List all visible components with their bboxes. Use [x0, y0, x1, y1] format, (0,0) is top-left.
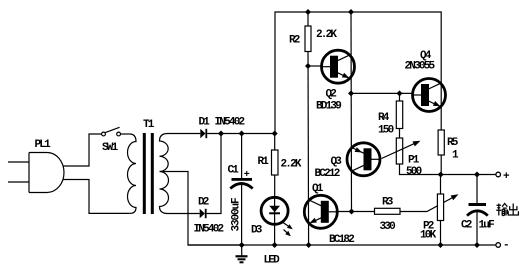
label 输出 (output) [496, 204, 518, 216]
svg-text:BD139: BD139 [316, 100, 341, 112]
svg-text:-: - [503, 240, 510, 252]
svg-text:3300uF: 3300uF [231, 198, 243, 232]
wire secondary top to D1 [168, 133, 201, 135]
transistor Q2 [316, 50, 355, 112]
wire plug to switch [63, 134, 102, 166]
wire center tap down to bottom rail [161, 172, 242, 246]
transistor Q1 [304, 183, 354, 246]
svg-text:BC182: BC182 [329, 234, 354, 246]
resistor R1 [258, 134, 302, 198]
svg-text:PL1: PL1 [35, 139, 52, 151]
capacitor C1 [228, 134, 253, 246]
wire emitter junction to Q4 base [351, 90, 412, 96]
resistor R4 [378, 93, 403, 136]
wire Q2 collector-emitter vertical down through Q3 [348, 12, 354, 212]
wire Q4 collector-emitter vertical to R5 [440, 83, 442, 130]
terminal minus [496, 240, 510, 252]
svg-text:1uF: 1uF [479, 219, 495, 231]
transformer T1 secondary winding [160, 134, 169, 214]
capacitor C2 [461, 175, 494, 246]
wire plug to transformer bottom [63, 180, 130, 214]
top rail [275, 9, 441, 134]
svg-text:500: 500 [406, 166, 422, 178]
resistor R2 [289, 12, 337, 52]
P2 wiper arrowhead [451, 194, 459, 200]
LED D3 [251, 197, 293, 266]
wire Q1 base to R3 [337, 211, 374, 213]
svg-text:+: + [503, 171, 510, 183]
potentiometer P2 [420, 175, 444, 246]
wire R2 bottom / Q2 base / Q1 collector-emitter line [305, 52, 322, 246]
svg-text:IN5402: IN5402 [194, 223, 224, 235]
transformer T1 core [143, 119, 155, 214]
node Q3 collector junction [349, 209, 355, 215]
diode D1 [199, 116, 245, 138]
wire secondary bottom to D2 [168, 213, 200, 215]
svg-text:IN5402: IN5402 [215, 116, 245, 128]
svg-text:2.2K: 2.2K [281, 158, 302, 170]
svg-text:C2: C2 [461, 220, 472, 232]
wire R3 to P2 wiper [400, 197, 455, 212]
svg-text:2.2K: 2.2K [316, 29, 337, 41]
ground [236, 245, 248, 262]
switch SW1 [102, 127, 121, 154]
wire P1 bottom to junction [400, 164, 441, 175]
svg-text:150: 150 [378, 124, 394, 136]
svg-text:330: 330 [380, 221, 396, 233]
terminal plus [496, 171, 510, 183]
transformer T1 primary winding [128, 134, 137, 213]
svg-text:BC212: BC212 [315, 168, 340, 180]
svg-text:+: + [244, 170, 250, 181]
svg-text:D2: D2 [198, 196, 209, 208]
svg-text:2N3055: 2N3055 [405, 61, 436, 73]
wire D1 to C1/R1 rail [207, 131, 278, 137]
svg-text:10K: 10K [420, 229, 437, 241]
resistor R3 [375, 196, 401, 233]
wire LED to bottom rail [274, 224, 276, 245]
junction node plus rail [438, 172, 496, 178]
diode D2 [194, 196, 224, 235]
svg-text:SW1: SW1 [102, 142, 119, 154]
transistor Q4 [405, 50, 446, 112]
wire D2 up to rail junction [207, 134, 221, 214]
bottom rail [188, 242, 496, 248]
svg-text:R2: R2 [289, 34, 300, 46]
potentiometer P1 [382, 129, 422, 178]
svg-text:Q2: Q2 [326, 88, 337, 100]
transistor Q3 [315, 143, 381, 180]
connector PL1 [8, 139, 64, 193]
resistor R5 [438, 130, 459, 175]
svg-text:LED: LED [264, 254, 281, 266]
wire switch to transformer [121, 133, 130, 135]
